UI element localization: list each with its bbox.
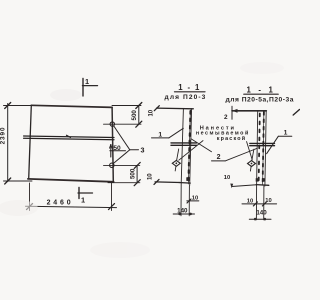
label 2 leader to section1 joint <box>191 139 212 152</box>
dimension 2460 bottom <box>26 183 117 211</box>
section2 cover dim line <box>242 202 277 206</box>
svg-text:для П20-5а,П20-3а: для П20-5а,П20-3а <box>226 96 294 103</box>
leader for position 3 <box>113 126 138 164</box>
horizontal joint line (50 gap) in plan <box>24 135 114 139</box>
plan view panel outline <box>28 105 114 182</box>
section1 panel faces <box>179 109 192 186</box>
leader arrow of 50 <box>110 145 113 158</box>
underline of 50 <box>110 150 126 152</box>
anchor point circle bottom <box>110 163 114 167</box>
section1 rebar dashed line <box>188 111 190 184</box>
section1 cover dim line <box>187 199 199 203</box>
svg-text:10: 10 <box>148 173 154 180</box>
label 2 underline <box>212 160 226 162</box>
svg-text:10: 10 <box>149 109 155 116</box>
section mark 1 top <box>83 79 98 97</box>
section mark 1 bottom <box>78 188 93 199</box>
anchor point circle top <box>110 122 114 126</box>
dimension 2390 left <box>4 103 33 185</box>
section1 bottom left dimension 10 <box>154 179 180 184</box>
svg-text:1 - 1: 1 - 1 <box>178 83 201 92</box>
section1 top dimension 10 <box>154 106 193 111</box>
header underline second <box>244 93 278 95</box>
svg-text:2: 2 <box>224 114 228 121</box>
svg-text:1 - 1: 1 - 1 <box>246 85 275 94</box>
section2 top dimension line <box>232 106 266 119</box>
section1 extension lines below <box>181 184 189 216</box>
section2 panel faces <box>256 111 269 186</box>
svg-text:1: 1 <box>85 77 89 86</box>
header underline first <box>175 91 206 93</box>
svg-text:1: 1 <box>284 130 288 137</box>
section1 paint mark diamond <box>172 149 180 171</box>
note leader to right diamond <box>247 142 253 160</box>
section1 thickness dim line <box>173 213 194 216</box>
svg-text:краской: краской <box>217 135 247 142</box>
label 2 leader to section2 joint <box>225 148 257 161</box>
section2 bottom dark blob <box>262 178 265 181</box>
svg-text:10: 10 <box>224 175 230 181</box>
svg-text:3: 3 <box>141 145 145 154</box>
faint scan smudges <box>0 62 284 258</box>
svg-text:для П20-3: для П20-3 <box>165 94 207 101</box>
section2 thickness dim line <box>249 218 271 221</box>
svg-text:2390: 2390 <box>0 127 7 145</box>
section2 bottom left dim 10 <box>230 184 256 189</box>
svg-text:2: 2 <box>217 154 221 161</box>
section1 rebar thin core <box>188 110 190 184</box>
svg-text:1: 1 <box>158 131 162 138</box>
note leader to left diamond <box>179 141 203 161</box>
section2 paint mark diamond <box>248 149 256 171</box>
section2 label 1 underline and leader <box>267 136 292 153</box>
svg-text:1: 1 <box>81 196 85 205</box>
svg-text:2460: 2460 <box>47 199 74 206</box>
label 1 underline and leader <box>152 128 184 138</box>
dimension 500 top right <box>104 103 142 128</box>
svg-text:500: 500 <box>129 168 136 179</box>
section1 joint lines <box>171 143 197 145</box>
section2 extension lines below <box>256 186 264 220</box>
section2 joint lines <box>250 143 275 145</box>
svg-text:500: 500 <box>131 110 138 121</box>
section2 rebar thin core <box>263 112 264 186</box>
section2 rebar dashed line <box>263 112 264 185</box>
dimension 500 bottom right <box>104 162 141 185</box>
svg-text:140: 140 <box>256 210 267 217</box>
stray mark right edge <box>293 110 299 116</box>
